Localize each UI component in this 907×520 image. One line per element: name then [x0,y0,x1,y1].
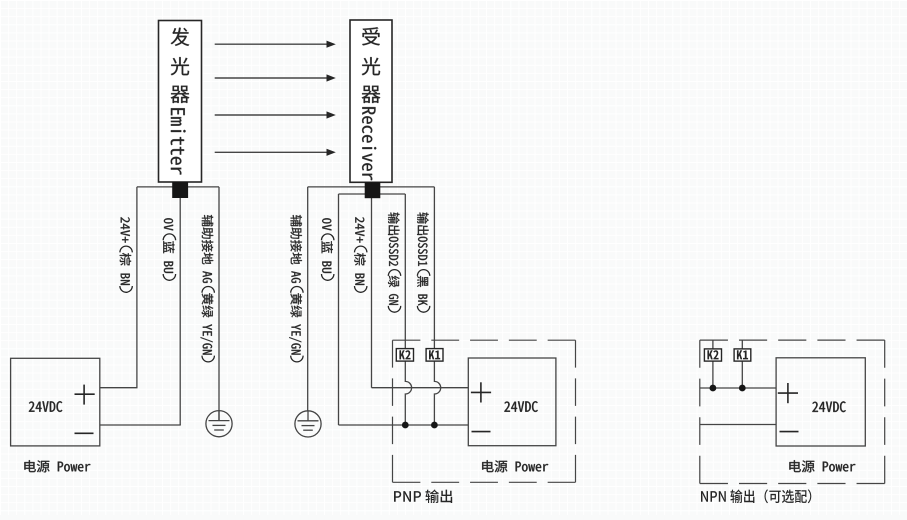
label 24V+ (BN) receiver [354,217,367,292]
junction dot OSSD1 to 0V [431,422,438,429]
wire AG receiver vertical to earth [307,187,309,411]
label 24VDC NPN supply [812,401,845,412]
wire 0V row NPN [700,424,776,426]
wire 0V receiver vertical [338,194,340,425]
label K1 PNP [429,350,440,359]
emitter box outline [159,21,202,183]
minus terminal left supply [75,432,94,434]
caption PNP 输出 [394,490,452,504]
wire OSSD2 vertical with hop over 24V+ [405,194,411,425]
label K2 PNP [399,350,410,359]
wire 0V receiver horizontal to PNP supply [339,424,469,426]
label AG (YE/GN) receiver [289,215,303,362]
wire K1 drop NPN [741,340,743,388]
emitter label Emitter [171,108,186,175]
receiver label 器 [362,86,381,103]
label AG (YE/GN) emitter [201,215,215,362]
wire 0V emitter horizontal to supply [100,424,181,426]
power supply box PNP [468,358,556,446]
emitter label 器 [171,86,190,103]
wire 24V+ emitter horizontal to supply [100,387,138,389]
receiver inner breakout stub wire [339,193,406,195]
PNP output dashed enclosure [393,340,576,482]
relay K1 box NPN [734,349,751,361]
label K2 NPN [707,350,718,359]
label 24VDC left supply [29,401,62,412]
label OSSD1 (BK) output [417,213,430,313]
wire OSSD1 vertical with hop over 24V+ [434,187,440,425]
wire 24V+ emitter vertical [136,187,138,388]
earth ground symbol emitter [206,411,232,437]
wire AG emitter vertical to earth [218,187,220,421]
emitter label 光 [171,57,189,75]
power supply box left [11,358,100,446]
label 0V (BU) emitter [163,218,175,280]
wire 24V+ receiver horizontal to PNP supply [372,387,469,389]
emitter breakout stub wire [137,186,219,188]
synchronization beam arrow [215,77,327,79]
receiver label Receiver [362,107,376,180]
plus terminal NPN supply [778,383,798,403]
synchronization beam arrow [215,43,327,45]
emitter label 发 [171,28,190,46]
synchronization beam arrow [215,114,327,116]
label 电源 Power PNP supply [482,460,548,472]
plus terminal left supply [75,385,95,405]
wire K2 drop NPN [712,340,714,388]
label 0V (BU) receiver [322,218,334,280]
receiver box outline [350,20,392,182]
receiver outer breakout stub wire [308,186,435,188]
earth ground symbol receiver [295,411,321,437]
synchronization beam arrow [215,151,327,153]
minus terminal NPN supply [780,431,799,433]
power supply box NPN [776,358,865,446]
label 24V+ (BN) emitter [120,217,133,292]
emitter cable connector [172,182,188,198]
relay K2 box PNP [396,349,413,362]
wire 24V+ receiver vertical [371,195,373,388]
junction dot OSSD2 to 0V [402,422,409,429]
junction dot K2 NPN [710,385,717,392]
label OSSD2 (GN) output [388,213,401,313]
label 电源 Power left supply [24,460,90,472]
NPN output dashed enclosure [700,340,885,483]
receiver label 受 [362,27,380,45]
relay K2 box NPN [704,349,721,361]
relay K1 box PNP [426,349,443,362]
plus terminal PNP supply [471,382,491,402]
label 电源 Power NPN supply [789,460,855,472]
junction dot K1 NPN [739,385,746,392]
wire 0V emitter vertical [179,195,181,425]
minus terminal PNP supply [472,431,491,433]
receiver label 光 [362,57,380,75]
receiver cable connector [365,182,381,198]
caption NPN 输出 optional [701,489,811,503]
label K1 NPN [737,350,748,359]
label 24VDC PNP supply [504,401,537,412]
wire 24V+ row NPN [700,387,776,389]
